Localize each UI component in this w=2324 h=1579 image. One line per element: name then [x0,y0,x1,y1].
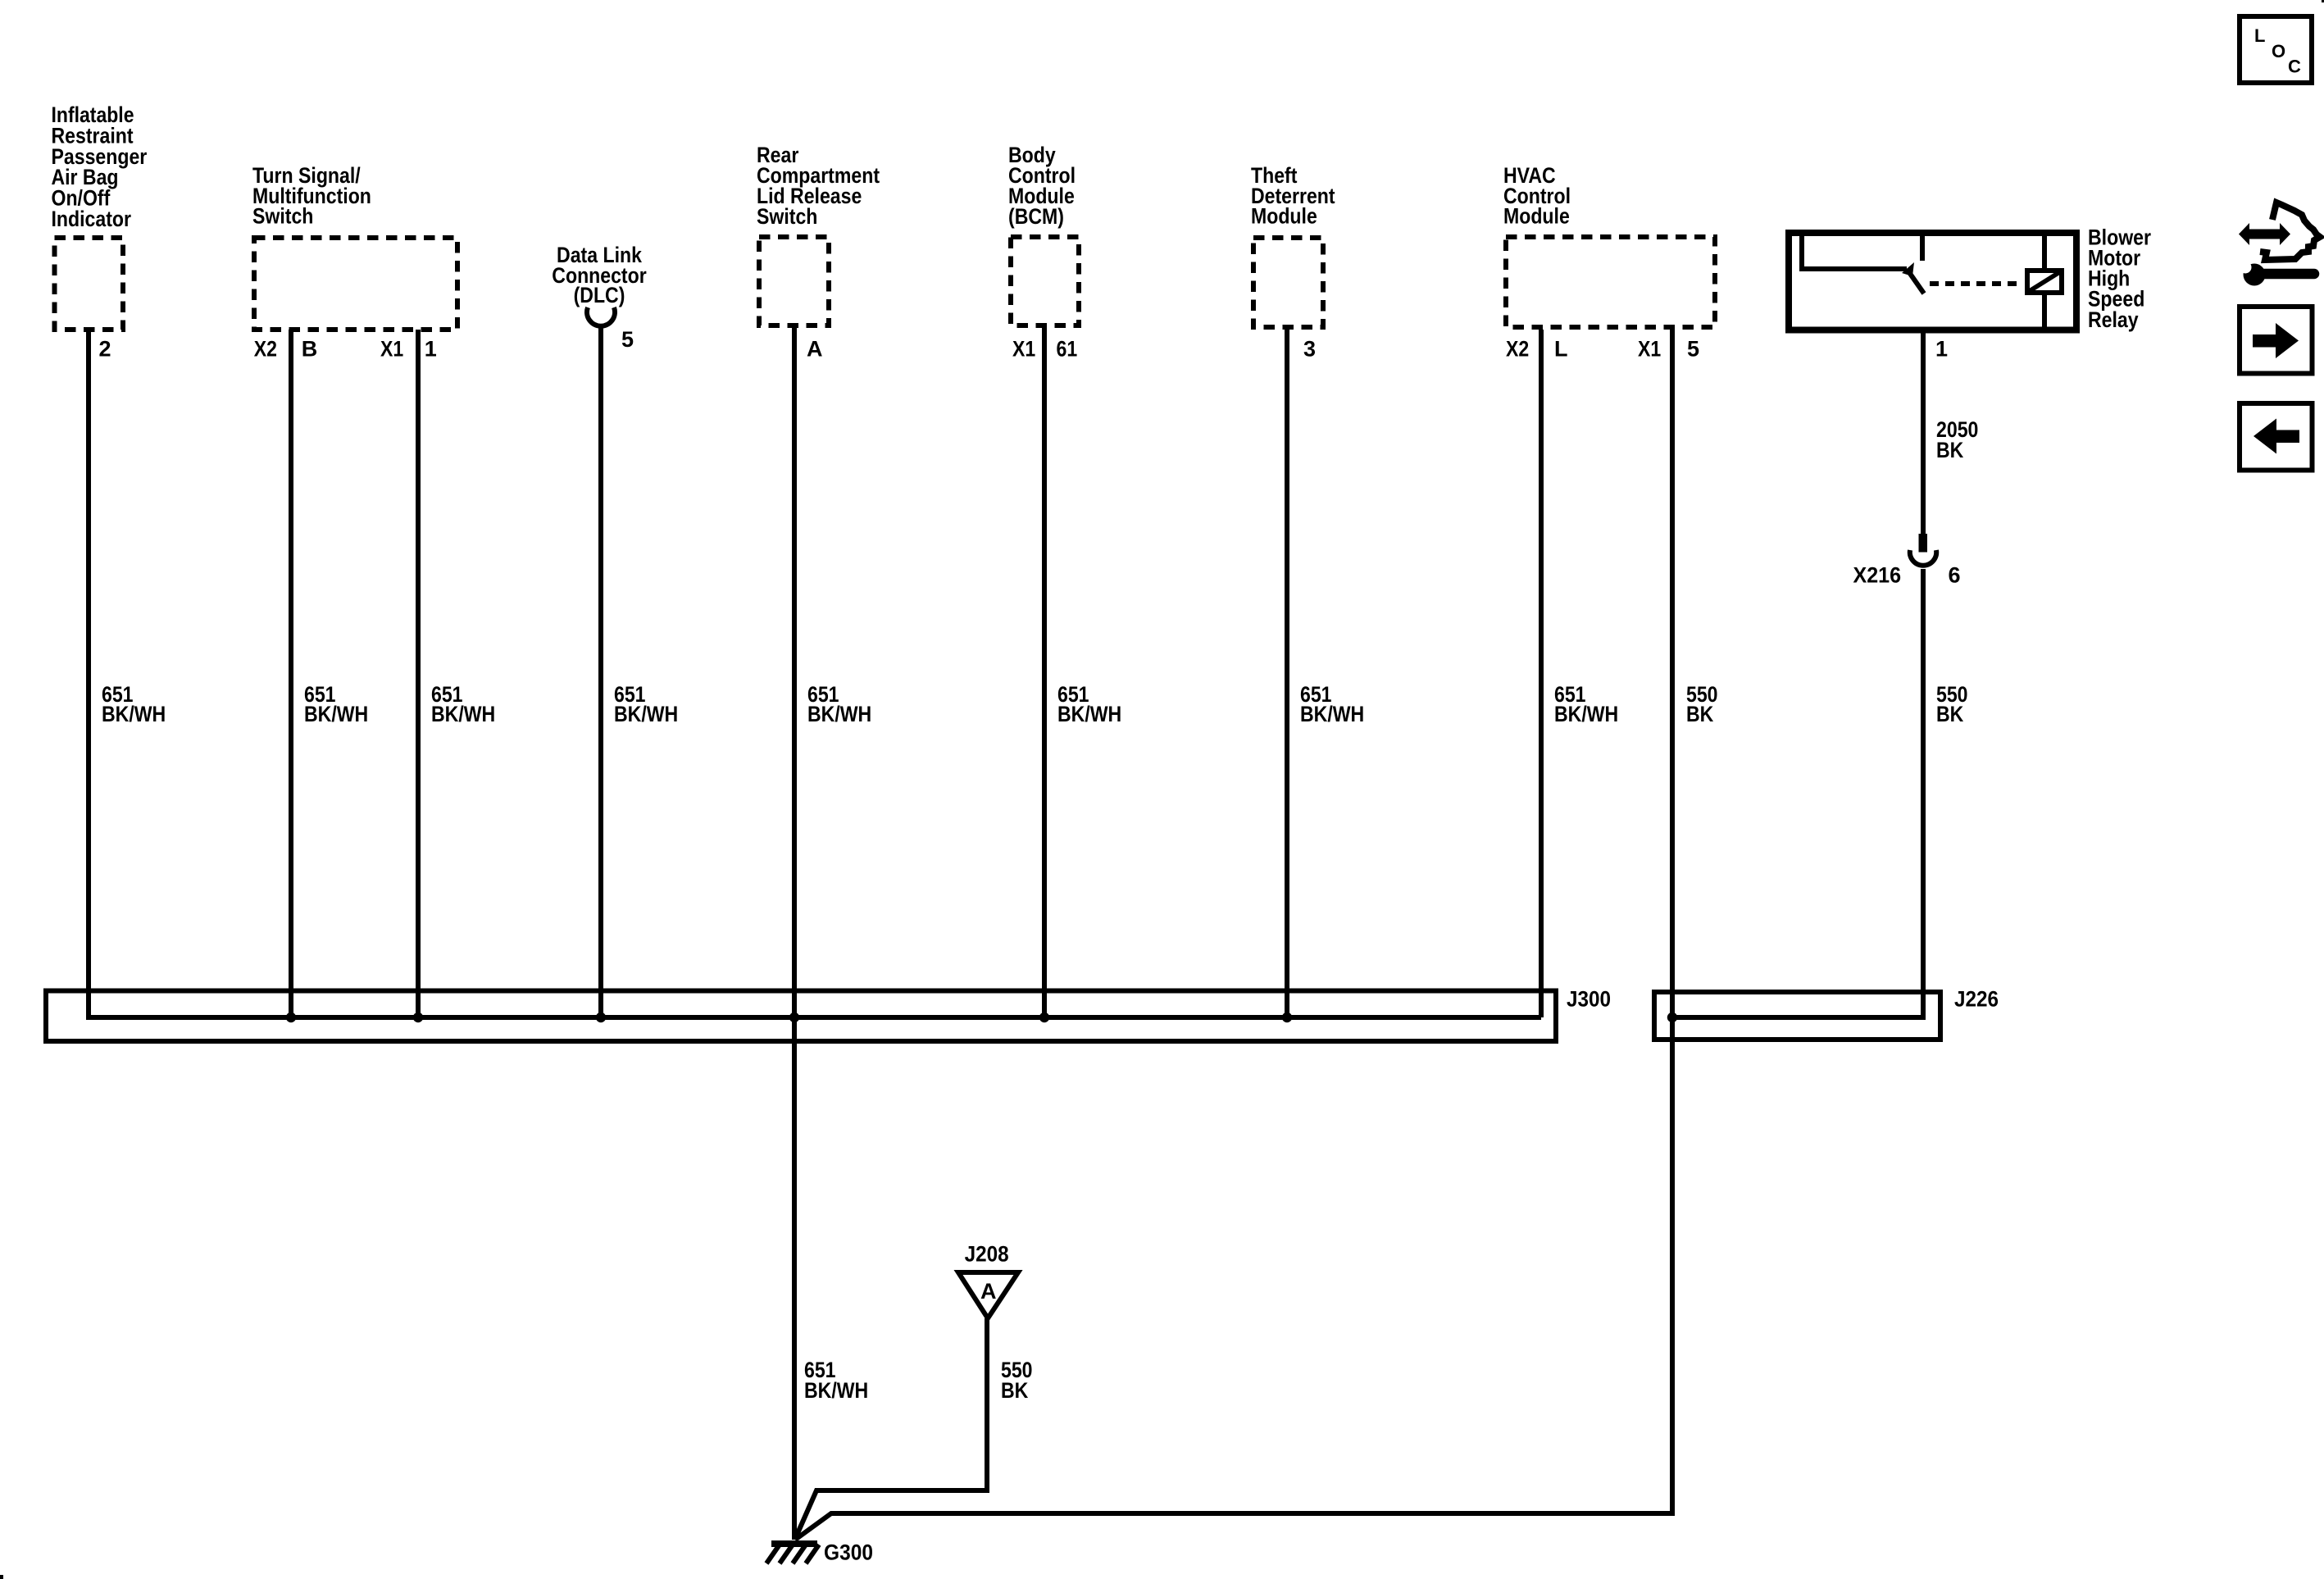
svg-text:O: O [2272,41,2285,61]
connector label X216 [1853,563,1902,588]
connector symbol: DLC female terminal [587,307,615,326]
wire label: 651 BK/WH (rear lid switch drop) [807,682,871,726]
wire label: 651 BK/WH (ground leg) [804,1358,868,1403]
splice pack J226 box [1654,992,1940,1040]
svg-text:Switch: Switch [252,204,313,229]
junction dot on J300 bus (theft module) [1282,1012,1292,1022]
wire: circuit 651 BK/WH from DLC pin 5 to J300 [598,325,603,1017]
junction dot on J300 bus (TS X1-1) [413,1012,423,1022]
pin 61 label [1057,337,1078,362]
pin label X1 (BCM) [1012,337,1035,362]
wire label: 651 BK/WH (TS X2-B drop) [304,682,368,726]
svg-text:X1: X1 [380,337,403,362]
wire: circuit 651 BK/WH from turn signal switch X2-B to J300 [289,330,293,1017]
svg-text:L: L [1554,337,1568,362]
svg-text:Module: Module [1251,204,1317,229]
svg-text:Relay: Relay [2088,307,2139,332]
relay internal: common feed wire [1802,233,1907,269]
wire: circuit 651 BK/WH from indicator pin 2 to splice J300 (left bus elbow) [89,330,1541,1017]
svg-text:BK/WH: BK/WH [1300,702,1364,726]
inline connector X216: male terminal [1919,534,1928,553]
legend: forward arrow box [2240,307,2313,374]
component label: Rear Compartment Lid Release Switch [757,143,880,229]
pin A label [807,337,823,362]
svg-text:X216: X216 [1853,563,1902,588]
component label: Data Link Connector (DLC) [552,243,647,307]
component label: Inflatable Restraint Passenger Air Bag On/Off Indicator [52,102,148,231]
svg-text:BK/WH: BK/WH [804,1378,868,1403]
junction dot on J300 bus (BCM) [1039,1012,1049,1022]
svg-text:J226: J226 [1954,987,1999,1012]
svg-text:BK/WH: BK/WH [1554,702,1618,726]
pin B label [302,337,318,362]
wire label: 651 BK/WH (BCM drop) [1057,682,1121,726]
pin label X1 (HVAC) [1638,337,1661,362]
svg-text:B: B [302,337,318,362]
svg-text:A: A [980,1279,997,1304]
svg-text:BK: BK [1936,438,1964,462]
wire label: 2050 BK (relay pin 1 drop) [1936,417,1978,462]
svg-text:BK/WH: BK/WH [614,702,678,726]
wire label: 651 BK/WH (TS X1-1 drop) [431,682,495,726]
pin 3 label [1303,337,1316,362]
pin L label [1554,337,1568,362]
wire label: 651 BK/WH (indicator drop) [102,682,166,726]
connector box: Inflatable Restraint Passenger Air Bag On/Off Indicator (dashed) [55,238,124,330]
wire: circuit 651 BK/WH from BCM X1-61 to J300 [1042,328,1047,1017]
component label: Turn Signal/Multifunction Switch [252,163,371,229]
relay K: Blower Motor High Speed Relay box [1789,233,2076,330]
splice label J300 [1567,987,1611,1012]
pin label X2 [254,337,277,362]
svg-text:BK/WH: BK/WH [807,702,871,726]
wire label: 651 BK/WH (theft module drop) [1300,682,1364,726]
inline connector X216: female terminal [1910,550,1936,566]
svg-text:BK/WH: BK/WH [1057,702,1121,726]
wire: circuit 550 BK from HVAC control module X1-5 through splice J226 to ground G300 [795,330,1672,1540]
wire label: 550 BK (HVAC X1-5 drop) [1686,682,1718,726]
svg-text:X1: X1 [1012,337,1035,362]
connector box: HVAC Control Module (dashed) [1506,237,1715,327]
svg-text:BK/WH: BK/WH [102,702,166,726]
node A label inside J208 [980,1279,997,1304]
svg-text:1: 1 [425,337,437,362]
svg-text:BK: BK [1001,1378,1029,1403]
pin 1 label (relay) [1935,337,1948,362]
pin 5 label (DLC) [621,327,634,352]
component label: HVAC Control Module [1503,163,1571,229]
component label: Body Control Module (BCM) [1008,143,1076,229]
legend: backward arrow box [2240,403,2313,471]
page corner mark (top right) [2322,0,2324,2]
svg-text:5: 5 [1687,337,1699,362]
junction dot on J300 bus (DLC) [596,1012,606,1022]
svg-text:6: 6 [1949,563,1961,588]
ground G300 symbol [766,1544,819,1563]
wire: circuit 651 BK/WH from turn signal switch X1-1 to J300 [416,330,421,1017]
svg-text:BK: BK [1936,702,1964,726]
relay internal: fixed contact [1920,233,1925,261]
pin label X2 (HVAC) [1506,337,1529,362]
svg-text:Switch: Switch [757,204,817,229]
wire: circuit 2050 BK / 550 BK from relay pin 1 to X216 [1921,331,1926,534]
svg-text:G300: G300 [824,1540,873,1565]
svg-text:BK: BK [1686,702,1714,726]
wire label: 550 BK (J208 leg) [1001,1358,1033,1403]
svg-text:X1: X1 [1638,337,1661,362]
svg-text:BK/WH: BK/WH [304,702,368,726]
connector box: Turn Signal/Multifunction Switch (dashed) [254,238,457,330]
page corner mark (bottom left) [0,1575,3,1579]
relay internal: coil feed wires [2042,233,2047,330]
relay internal: movable contact arm [1902,262,1924,294]
wire: circuit 651 BK/WH from HVAC control module X2-L to J300 (right bus elbow) [1539,330,1544,1017]
svg-text:2: 2 [99,337,111,362]
wire label: 651 BK/WH (DLC drop) [614,682,678,726]
junction dot on J300 bus (rear lid switch) [789,1012,799,1022]
wire: circuit 651 BK/WH from rear compartment lid release switch pin A through J300 to ground junction [792,328,797,1540]
svg-text:1: 1 [1935,337,1948,362]
svg-text:(BCM): (BCM) [1008,204,1064,229]
svg-text:5: 5 [621,327,634,352]
connector box: Rear Compartment Lid Release Switch (dashed) [759,237,829,325]
svg-text:X2: X2 [254,337,277,362]
pin 1 label [425,337,437,362]
connector box: Theft Deterrent Module (dashed) [1253,238,1323,327]
pin 5 label (HVAC) [1687,337,1699,362]
connector box: Body Control Module (dashed) [1011,237,1079,325]
LOC legend box [2240,16,2312,83]
splice pack J300 box [46,991,1556,1042]
junction dot on J226 bus (550 BK through-wire) [1667,1012,1677,1022]
component label: Blower Motor High Speed Relay [2088,225,2151,332]
pin label X1 [380,337,403,362]
icon: diagnostic double arrow with outline arrow and wrench [2239,202,2320,286]
ground label G300 [824,1540,873,1565]
svg-text:J208: J208 [965,1242,1009,1267]
splice sleeve J208 triangle symbol [958,1272,1018,1318]
svg-text:BK/WH: BK/WH [431,702,495,726]
relay internal: actuation dashed link [1930,281,2022,286]
wire: circuit 550 BK from J208 splice to ground G300 [795,1318,987,1539]
svg-text:C: C [2288,57,2301,77]
svg-text:J300: J300 [1567,987,1611,1012]
wire label: 651 BK/WH (HVAC X2-L drop) [1554,682,1618,726]
svg-text:61: 61 [1057,337,1078,362]
wire label: 550 BK (below X216) [1936,682,1968,726]
svg-text:3: 3 [1303,337,1316,362]
svg-text:Module: Module [1503,204,1570,229]
svg-text:X2: X2 [1506,337,1529,362]
splice label J226 [1954,987,1999,1012]
wire: circuit 550 BK from X216 pin 6 to splice J226 bus [1672,569,1923,1017]
pin 6 label (X216) [1949,563,1961,588]
splice sleeve J208 label [965,1242,1009,1267]
svg-text:(DLC): (DLC) [574,283,625,307]
wire: circuit 651 BK/WH from theft deterrent module pin 3 to J300 [1285,330,1289,1017]
component label: Theft Deterrent Module [1251,163,1335,229]
svg-text:Indicator: Indicator [52,207,132,231]
svg-text:A: A [807,337,823,362]
pin 2 label [99,337,111,362]
relay coil [2027,271,2062,293]
svg-text:L: L [2254,25,2265,46]
junction dot on J300 bus (TS X2-B) [286,1012,296,1022]
